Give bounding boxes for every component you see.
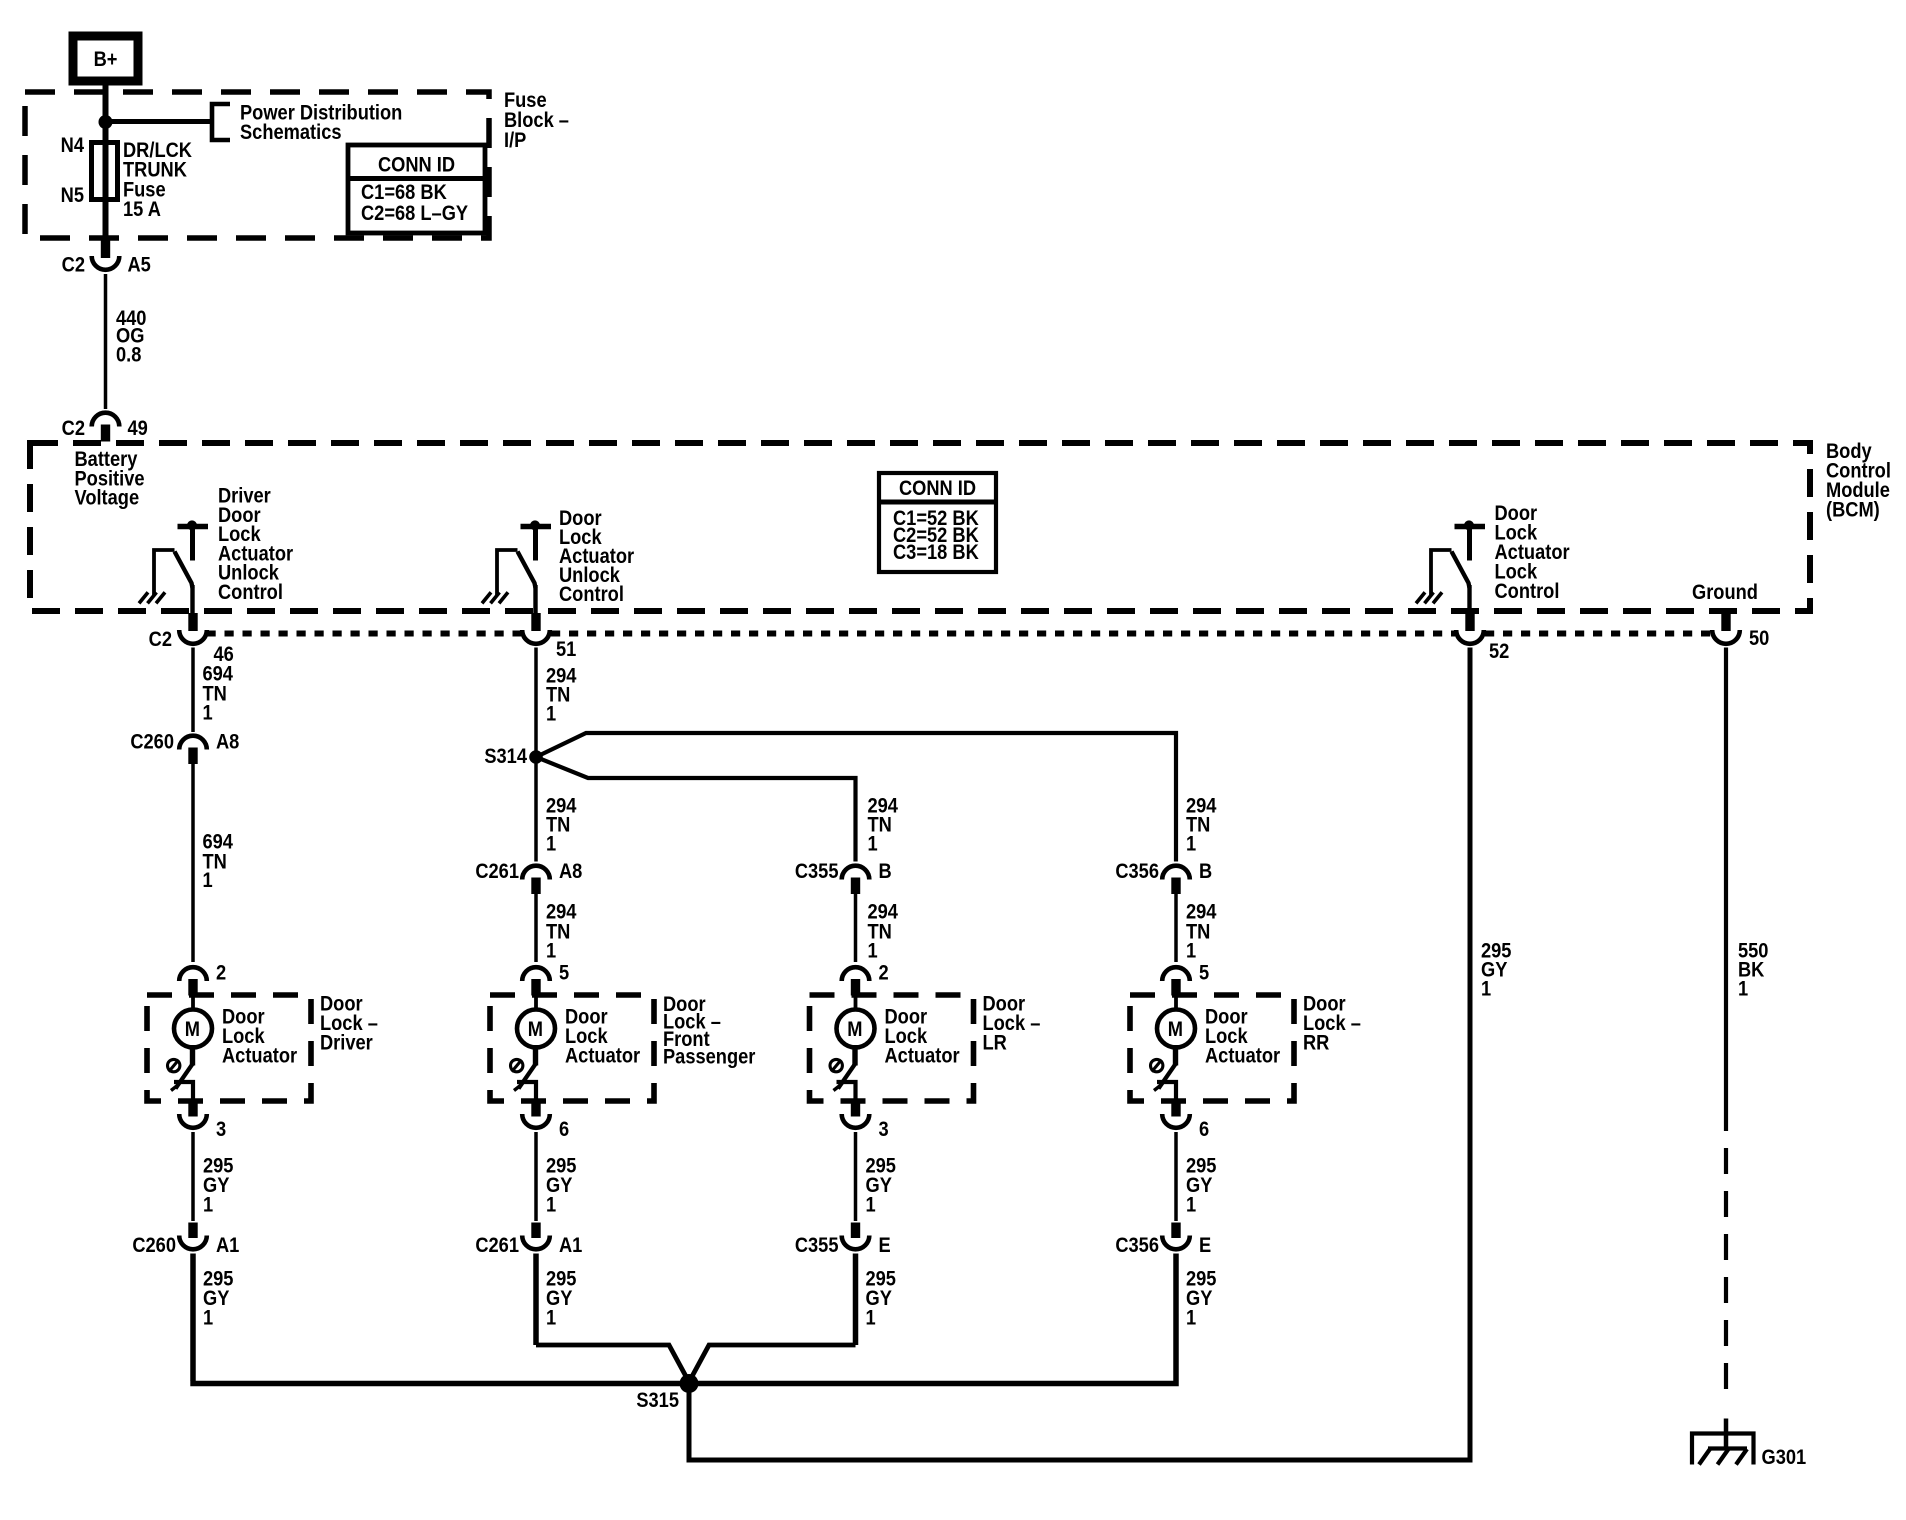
svg-text:1: 1 xyxy=(546,702,556,725)
connector stub out of LR actuator xyxy=(851,1102,860,1117)
svg-text:1: 1 xyxy=(203,869,213,892)
svg-text:Actuator: Actuator xyxy=(565,1044,640,1067)
svg-text:M: M xyxy=(528,1018,543,1041)
svg-text:0.8: 0.8 xyxy=(116,343,141,366)
wire motor lead (front passenger) xyxy=(534,996,538,1011)
CONN ID table (BCM) xyxy=(879,473,996,572)
svg-text:Voltage: Voltage xyxy=(75,486,140,509)
svg-text:C356: C356 xyxy=(1115,1234,1159,1257)
wire 294 TN from pin 51 xyxy=(534,648,538,758)
connector pin 2 cap (LR actuator) xyxy=(842,967,870,981)
svg-text:A8: A8 xyxy=(559,860,582,883)
wire 294 TN below C356 xyxy=(1174,894,1178,962)
svg-text:S315: S315 xyxy=(636,1389,679,1412)
svg-text:1: 1 xyxy=(866,1306,876,1329)
junction dot at fuse feed xyxy=(99,115,113,129)
svg-text:M: M xyxy=(1168,1018,1183,1041)
BCM C2 connector dotted line xyxy=(207,631,522,637)
wire 295 GY below RR actuator xyxy=(1174,1132,1178,1221)
motor switch blade (driver) xyxy=(190,1045,195,1066)
BCM lock output transistor-switch Q3 xyxy=(1455,524,1486,529)
svg-text:1: 1 xyxy=(868,832,878,855)
wire front passenger column down xyxy=(533,1254,539,1346)
connector cup BCM pin 51 xyxy=(522,630,550,644)
connector pin 5 cap (RR actuator) xyxy=(1162,967,1190,981)
svg-text:Control: Control xyxy=(559,583,624,606)
connector stub into LR actuator xyxy=(851,979,860,996)
svg-text:Ground: Ground xyxy=(1692,581,1758,604)
connector C261 pin A8 cap xyxy=(522,866,550,880)
svg-text:A5: A5 xyxy=(128,253,151,276)
svg-text:Schematics: Schematics xyxy=(240,121,342,144)
svg-text:1: 1 xyxy=(1186,1306,1196,1329)
svg-text:CONN ID: CONN ID xyxy=(899,477,976,500)
svg-text:C260: C260 xyxy=(130,730,174,753)
connector C355 pin B stub xyxy=(851,878,860,895)
svg-text:C355: C355 xyxy=(795,1234,839,1257)
svg-text:2: 2 xyxy=(879,961,889,984)
splice S314 xyxy=(529,750,543,764)
svg-text:B: B xyxy=(1199,860,1212,883)
svg-text:Actuator: Actuator xyxy=(1205,1044,1280,1067)
svg-text:50: 50 xyxy=(1749,627,1769,650)
BCM driver-door unlock output transistor-switch Q1 xyxy=(178,524,209,529)
svg-text:5: 5 xyxy=(1199,961,1209,984)
svg-text:E: E xyxy=(1199,1234,1211,1257)
wire S315 to 52 column xyxy=(689,648,1470,1461)
svg-text:B: B xyxy=(879,860,892,883)
svg-text:1: 1 xyxy=(546,939,556,962)
svg-text:6: 6 xyxy=(559,1118,569,1141)
connector C355 pin B cap xyxy=(842,866,870,880)
connector stub BCM pin 50 xyxy=(1721,613,1730,631)
wire driver column down to bus xyxy=(190,1254,196,1382)
connector stub into driver actuator xyxy=(188,979,197,996)
slashed-circle contact symbol (driver) xyxy=(168,1059,180,1071)
ground symbol (BCM unlock driver) xyxy=(482,592,508,603)
svg-text:1: 1 xyxy=(1186,939,1196,962)
wire 295 GY below driver actuator xyxy=(191,1132,195,1221)
wire S314 down to C261 xyxy=(534,757,538,862)
connector stub out of driver actuator xyxy=(188,1102,197,1117)
ground symbol (BCM lock driver) xyxy=(1416,592,1442,603)
slashed-circle contact symbol (RR) xyxy=(1151,1059,1163,1071)
svg-text:51: 51 xyxy=(556,638,576,661)
connector stub out of RR actuator xyxy=(1171,1102,1180,1117)
wire 294 TN below C261 xyxy=(534,894,538,962)
svg-text:S314: S314 xyxy=(484,745,527,768)
connector C2 pin A5 cup xyxy=(92,256,120,270)
connector C2 pin 49 stub xyxy=(101,425,110,442)
svg-text:3: 3 xyxy=(879,1118,889,1141)
svg-text:B+: B+ xyxy=(94,48,118,71)
svg-text:C2=68 L–GY: C2=68 L–GY xyxy=(361,202,468,225)
connector C355 pin E cup xyxy=(842,1236,870,1250)
svg-text:RR: RR xyxy=(1303,1031,1329,1054)
svg-text:1: 1 xyxy=(203,1306,213,1329)
door lock actuator dashed box (LR) xyxy=(810,995,974,1101)
connector stub into front passenger actuator xyxy=(531,979,540,996)
svg-text:Driver: Driver xyxy=(320,1031,373,1054)
motor switch blade (front passenger) xyxy=(533,1045,538,1066)
wire through fuse xyxy=(103,144,109,199)
slashed-circle contact symbol (LR) xyxy=(830,1059,842,1071)
svg-text:A1: A1 xyxy=(559,1234,582,1257)
connector C260 pin A8 stub xyxy=(188,748,197,765)
connector cup BCM pin 46 xyxy=(179,630,207,644)
wire fuse to fuse block bottom xyxy=(103,199,109,236)
wire 295 GY below LR actuator xyxy=(854,1132,858,1221)
svg-text:52: 52 xyxy=(1489,640,1509,663)
wire B+ feed through fuse block xyxy=(103,92,109,144)
door lock actuator dashed box (front passenger) xyxy=(490,995,654,1101)
wire 694 TN segment 1 xyxy=(191,648,195,733)
wire LR column down xyxy=(853,1254,859,1346)
connector stub into RR actuator xyxy=(1171,979,1180,996)
power distribution schematics bracket xyxy=(212,104,230,140)
connector C355 pin E stub xyxy=(851,1223,860,1239)
motor M (front passenger actuator) xyxy=(517,1010,555,1048)
connector cup BCM pin 52 xyxy=(1456,630,1484,644)
connector C261 pin A1 stub xyxy=(531,1223,540,1239)
svg-text:1: 1 xyxy=(203,701,213,724)
wire 295 GY below front passenger actuator xyxy=(534,1132,538,1221)
motor switch blade (RR) xyxy=(1173,1045,1178,1066)
connector stub BCM pin 51 xyxy=(531,613,540,631)
fuse F1 DR/LCK TRUNK body xyxy=(92,143,118,200)
wire 550 BK solid segment xyxy=(1724,648,1728,1106)
fuse block dashed box xyxy=(25,92,489,238)
door lock actuator dashed box (RR) xyxy=(1130,995,1294,1101)
wire S314 upper branch to RR column xyxy=(536,733,1176,862)
svg-text:1: 1 xyxy=(866,1193,876,1216)
connector C2 pin 49 cap xyxy=(92,413,120,427)
svg-text:1: 1 xyxy=(546,832,556,855)
motor M (RR actuator) xyxy=(1157,1010,1195,1048)
svg-text:1: 1 xyxy=(203,1193,213,1216)
BCM unlock output transistor-switch Q2 xyxy=(521,524,552,529)
connector C260 pin A8 cap xyxy=(179,736,207,750)
svg-text:5: 5 xyxy=(559,961,569,984)
svg-text:C2: C2 xyxy=(62,253,85,276)
splice S315 xyxy=(680,1374,699,1393)
svg-text:(BCM): (BCM) xyxy=(1826,498,1880,521)
svg-text:M: M xyxy=(847,1018,862,1041)
wire 294 TN below C355 xyxy=(854,894,858,962)
svg-text:1: 1 xyxy=(1186,1193,1196,1216)
svg-text:C1=68 BK: C1=68 BK xyxy=(361,181,448,204)
connector pin 5 cap (front passenger actuator) xyxy=(522,967,550,981)
svg-text:C261: C261 xyxy=(475,860,519,883)
svg-text:2: 2 xyxy=(216,961,226,984)
svg-text:1: 1 xyxy=(1186,832,1196,855)
B+ battery positive terminal xyxy=(73,36,138,81)
svg-text:N5: N5 xyxy=(61,184,84,207)
connector pin 3 cup (driver actuator) xyxy=(179,1114,207,1128)
svg-text:1: 1 xyxy=(1481,977,1491,1000)
wire 440 OG segment xyxy=(104,274,108,409)
wire motor lead (RR) xyxy=(1174,996,1178,1011)
connector C356 pin E stub xyxy=(1171,1223,1180,1239)
connector cup BCM pin 50 xyxy=(1712,630,1740,644)
connector stub out of front passenger actuator xyxy=(531,1102,540,1117)
svg-text:C2: C2 xyxy=(62,417,85,440)
CONN ID table (fuse block) xyxy=(348,145,485,233)
connector C260 pin A1 stub xyxy=(188,1223,197,1239)
wire 550 BK dashed segment xyxy=(1724,1105,1728,1404)
svg-text:49: 49 xyxy=(128,417,148,440)
connector C2 pin A5 stub xyxy=(101,239,110,259)
connector C260 pin A1 cup xyxy=(179,1236,207,1250)
ground G301 symbol xyxy=(1692,1434,1754,1465)
svg-text:C355: C355 xyxy=(795,860,839,883)
wire bus driver to S315 xyxy=(190,1381,689,1387)
svg-text:I/P: I/P xyxy=(504,129,526,152)
svg-text:3: 3 xyxy=(216,1118,226,1141)
wire motor lead (LR) xyxy=(854,996,858,1011)
connector C356 pin B cap xyxy=(1162,866,1190,880)
svg-text:Actuator: Actuator xyxy=(222,1044,297,1067)
wire 550 BK stem into ground xyxy=(1724,1419,1729,1448)
wire S314 lower branch to LR column xyxy=(536,757,856,862)
svg-text:LR: LR xyxy=(983,1031,1007,1054)
connector C261 pin A8 stub xyxy=(531,878,540,895)
motor M (LR actuator) xyxy=(837,1010,875,1048)
connector stub BCM pin 46 xyxy=(188,613,197,631)
wire bus S315 to RR column xyxy=(689,1254,1176,1384)
motor switch blade (LR) xyxy=(852,1045,857,1066)
motor M (driver actuator) xyxy=(174,1010,212,1048)
svg-text:Control: Control xyxy=(218,581,283,604)
door lock actuator dashed box (driver) xyxy=(147,995,311,1101)
svg-text:C3=18 BK: C3=18 BK xyxy=(893,541,980,564)
connector stub BCM pin 52 xyxy=(1465,613,1474,631)
wire motor lead (driver) xyxy=(191,996,195,1011)
svg-text:C356: C356 xyxy=(1115,860,1159,883)
svg-text:1: 1 xyxy=(868,939,878,962)
svg-text:C260: C260 xyxy=(132,1234,176,1257)
svg-text:N4: N4 xyxy=(61,134,84,157)
connector C356 pin E cup xyxy=(1162,1236,1190,1250)
wire 694 TN segment 2 xyxy=(191,764,195,962)
svg-text:M: M xyxy=(185,1018,200,1041)
svg-text:15 A: 15 A xyxy=(123,198,161,221)
svg-text:1: 1 xyxy=(546,1193,556,1216)
connector pin 6 cup (front passenger actuator) xyxy=(522,1114,550,1128)
svg-text:E: E xyxy=(879,1234,891,1257)
wire 1345 crossbar with V to S315 xyxy=(536,1345,856,1382)
svg-text:G301: G301 xyxy=(1762,1446,1807,1469)
connector C261 pin A1 cup xyxy=(522,1236,550,1250)
connector pin 2 cap (driver actuator) xyxy=(179,967,207,981)
svg-text:C2: C2 xyxy=(149,628,172,651)
svg-text:1: 1 xyxy=(1738,977,1748,1000)
connector pin 3 cup (LR actuator) xyxy=(842,1114,870,1128)
svg-text:C261: C261 xyxy=(475,1234,519,1257)
svg-text:1: 1 xyxy=(546,1306,556,1329)
svg-text:CONN ID: CONN ID xyxy=(378,153,455,176)
Body Control Module dashed box xyxy=(30,443,1810,611)
slashed-circle contact symbol (front passenger) xyxy=(511,1059,523,1071)
connector pin 6 cup (RR actuator) xyxy=(1162,1114,1190,1128)
svg-text:A1: A1 xyxy=(216,1234,239,1257)
svg-text:6: 6 xyxy=(1199,1118,1209,1141)
ground symbol (BCM driver unlock driver) xyxy=(139,592,165,603)
svg-text:Passenger: Passenger xyxy=(663,1045,756,1068)
wire junction to power distribution bracket xyxy=(106,119,213,124)
connector C356 pin B stub xyxy=(1171,878,1180,895)
svg-text:A8: A8 xyxy=(216,730,239,753)
wire B+ to fuse block xyxy=(103,81,109,92)
svg-text:Control: Control xyxy=(1495,580,1560,603)
svg-text:Actuator: Actuator xyxy=(885,1044,960,1067)
BCM ground stub wire xyxy=(1724,611,1729,614)
